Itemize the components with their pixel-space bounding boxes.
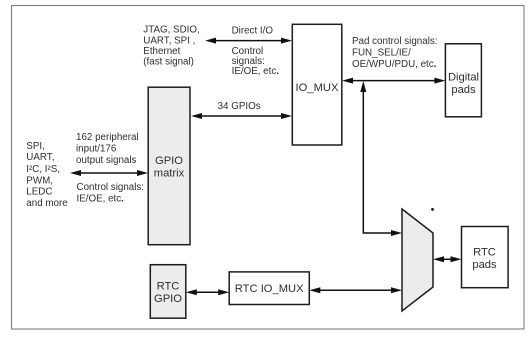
svg-text:162 peripheral: 162 peripheral — [76, 132, 139, 143]
wire IO_MUX branch to mux trapezoid — [360, 81, 402, 236]
wire 34 GPIOs : GPIO matrix <-> IO_MUX — [191, 113, 292, 119]
svg-text:Ethernet: Ethernet — [143, 46, 180, 57]
block RTC GPIO — [150, 265, 186, 319]
block IO_MUX U-top — [292, 24, 342, 145]
svg-text:Digital: Digital — [448, 72, 479, 84]
svg-text:UART, SPI ,: UART, SPI , — [143, 35, 195, 46]
wire Direct I/O : text block <-> IO_MUX — [205, 38, 292, 44]
label pad control signals — [352, 36, 438, 70]
svg-text:JTAG, SDIO,: JTAG, SDIO, — [143, 25, 199, 36]
svg-text:GPIO: GPIO — [155, 155, 183, 167]
svg-text:SPI,: SPI, — [26, 141, 45, 152]
wire mux trapezoid <-> RTC pads — [433, 256, 462, 262]
svg-text:OE/WPU/PDU, etc.: OE/WPU/PDU, etc. — [352, 59, 437, 70]
svg-text:GPIO: GPIO — [154, 293, 182, 305]
block RTC IO_MUX — [229, 272, 309, 305]
svg-text:IE/OE, etc.: IE/OE, etc. — [77, 193, 125, 204]
svg-text:IO_MUX: IO_MUX — [296, 82, 339, 94]
svg-text:RTC IO_MUX: RTC IO_MUX — [235, 283, 304, 295]
stray dot — [431, 208, 434, 211]
svg-text:PWM,: PWM, — [26, 176, 53, 187]
wire RTC GPIO <-> RTC IO_MUX — [186, 289, 229, 295]
svg-text:Pad control signals:: Pad control signals: — [352, 36, 438, 47]
svg-text:pads: pads — [472, 259, 497, 271]
wire peripheral signals : left text <-> GPIO matrix — [70, 170, 148, 176]
wire RTC IO_MUX <-> mux trapezoid — [309, 287, 402, 293]
svg-text:output signals: output signals — [76, 155, 137, 166]
svg-text:LEDC: LEDC — [26, 187, 52, 198]
svg-text:Control signals:: Control signals: — [77, 182, 145, 193]
svg-text:34 GPIOs: 34 GPIOs — [218, 101, 261, 112]
mux trapezoid — [402, 209, 433, 311]
wire pad control : IO_MUX <-> Digital pads — [342, 78, 445, 84]
label control signals IE/OE (left) — [77, 182, 145, 204]
svg-text:UART,: UART, — [26, 152, 54, 163]
block GPIO matrix — [148, 87, 190, 245]
label control signals IE/OE (top) — [232, 46, 280, 77]
svg-text:Direct I/O: Direct I/O — [232, 26, 274, 37]
svg-text:FUN_SEL/IE/: FUN_SEL/IE/ — [352, 48, 411, 59]
svg-text:IE/OE, etc.: IE/OE, etc. — [232, 66, 280, 77]
block RTC pads — [462, 227, 509, 288]
svg-text:RTC: RTC — [157, 281, 180, 293]
block Digital pads — [445, 44, 481, 117]
svg-text:input/176: input/176 — [76, 144, 117, 155]
svg-text:(fast signal): (fast signal) — [143, 57, 194, 68]
label peripherals list — [26, 141, 68, 209]
svg-text:and more: and more — [26, 198, 68, 209]
svg-text:I²C, I²S,: I²C, I²S, — [26, 164, 60, 175]
label 162 peripheral signals — [76, 132, 139, 166]
label JTAG fast signals — [143, 25, 199, 68]
svg-text:RTC: RTC — [473, 246, 496, 258]
svg-text:matrix: matrix — [154, 168, 185, 180]
svg-text:pads: pads — [451, 84, 476, 96]
